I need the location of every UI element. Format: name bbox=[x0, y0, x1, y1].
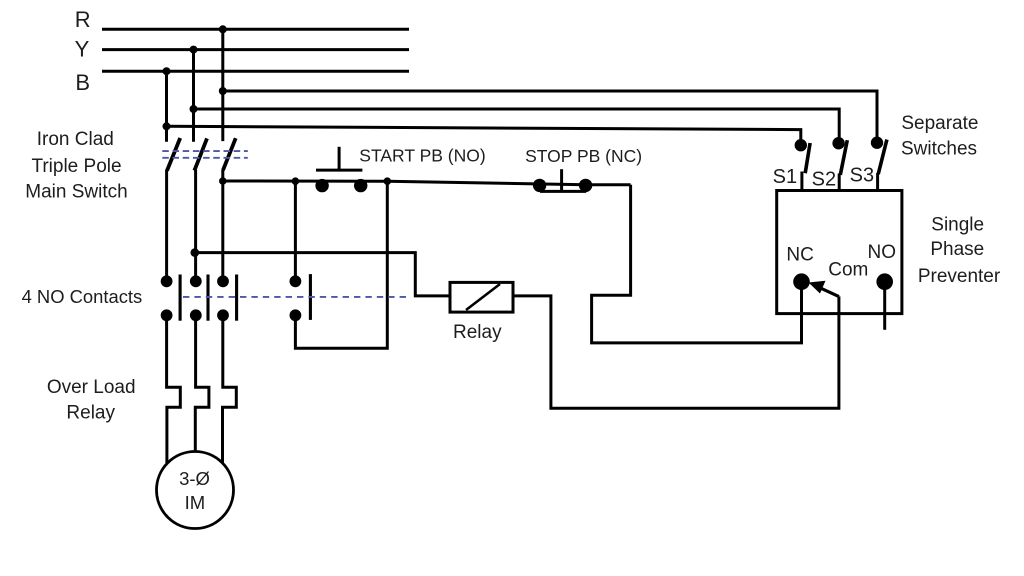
switch S1 blade bbox=[805, 143, 810, 173]
main switch pole B upper bbox=[165, 71, 168, 142]
junction dot control tap bbox=[219, 177, 227, 185]
wire relay coil feed bbox=[195, 253, 450, 296]
switch S2 blade bbox=[840, 140, 847, 175]
junction dot Y branch bbox=[190, 105, 198, 113]
wire contact2 to overload heater 2 bbox=[195, 318, 209, 452]
svg-text:START PB (NO): START PB (NO) bbox=[359, 145, 485, 165]
switch S3 terminal bbox=[871, 137, 883, 149]
preventer NO terminal bbox=[876, 273, 893, 290]
main switch blade Y bbox=[194, 138, 207, 170]
switch S3 blade bbox=[878, 140, 887, 175]
preventer NC terminal bbox=[793, 273, 810, 290]
svg-text:Preventer: Preventer bbox=[918, 266, 1001, 287]
svg-text:4 NO Contacts: 4 NO Contacts bbox=[22, 286, 143, 307]
junction dot R branch bbox=[219, 87, 227, 95]
phase rail R bbox=[102, 28, 409, 31]
start pushbutton actuator bar bbox=[316, 169, 362, 172]
wire relay to preventer Com bbox=[513, 296, 839, 408]
main switch blade B bbox=[167, 138, 180, 171]
start pushbutton stem bbox=[338, 147, 341, 170]
svg-text:Separate: Separate bbox=[901, 113, 978, 134]
main switch pole R lower wire bbox=[221, 170, 224, 277]
contact 3 upper terminal bbox=[217, 275, 229, 287]
contactor NO contact 4 bar bbox=[309, 274, 312, 320]
wire holding contact feed bbox=[294, 181, 297, 277]
stop button contact right bbox=[579, 179, 592, 192]
contactor NO contact 2 bar bbox=[206, 275, 209, 321]
svg-text:Com: Com bbox=[828, 259, 868, 280]
contact 2 lower terminal bbox=[190, 309, 202, 321]
main switch pole B lower wire bbox=[165, 170, 168, 277]
stop pushbutton stem bbox=[560, 169, 563, 191]
svg-text:R: R bbox=[75, 7, 91, 32]
switch S1 stub bbox=[800, 172, 803, 191]
contact 1 lower terminal bbox=[161, 309, 173, 321]
contact 3 lower terminal bbox=[217, 309, 229, 321]
wire contact1 to overload heater 1 bbox=[167, 318, 181, 464]
contact 2 upper terminal bbox=[190, 275, 202, 287]
junction dot holding left bbox=[292, 177, 300, 185]
svg-text:Y: Y bbox=[75, 37, 90, 62]
svg-text:Iron Clad: Iron Clad bbox=[37, 129, 114, 150]
junction dot Y rail bbox=[190, 46, 198, 54]
svg-text:Phase: Phase bbox=[930, 239, 984, 260]
svg-text:NC: NC bbox=[786, 245, 813, 266]
contactor NO contact 1 bar bbox=[179, 275, 182, 321]
phase rail B bbox=[102, 70, 409, 73]
start button contact left bbox=[315, 179, 328, 192]
main switch coupling dashed line upper bbox=[162, 150, 248, 152]
svg-text:S2: S2 bbox=[812, 169, 836, 191]
switch S3 stub bbox=[876, 173, 879, 191]
junction dot B rail bbox=[163, 67, 171, 75]
svg-text:Triple Pole: Triple Pole bbox=[31, 156, 121, 177]
contact 4 lower terminal bbox=[290, 309, 302, 321]
svg-text:Single: Single bbox=[931, 214, 984, 235]
junction dot holding right bbox=[384, 177, 392, 185]
motor 3-phase induction bbox=[157, 452, 234, 529]
relay coil box bbox=[450, 282, 513, 312]
junction dot R rail bbox=[219, 25, 227, 33]
svg-text:IM: IM bbox=[185, 492, 206, 513]
svg-text:STOP PB (NC): STOP PB (NC) bbox=[525, 146, 642, 166]
preventer Com arrowhead bbox=[809, 281, 826, 294]
wire R rail to S3 bbox=[223, 91, 877, 141]
switch S2 terminal bbox=[832, 137, 844, 149]
start button contact right bbox=[354, 179, 367, 192]
junction dot relay feed bbox=[191, 248, 200, 257]
svg-text:Main Switch: Main Switch bbox=[25, 181, 127, 202]
switch S1 terminal bbox=[795, 139, 807, 151]
preventer Com arrow line bbox=[817, 286, 839, 296]
preventer box bbox=[777, 191, 902, 314]
contact 4 upper terminal bbox=[290, 275, 302, 287]
main switch pole Y upper bbox=[192, 50, 195, 142]
wire B rail to S1 bbox=[167, 126, 801, 143]
wire Y rail to S2 bbox=[194, 109, 840, 142]
wire stop to preventer NC bbox=[592, 185, 802, 343]
main switch coupling dashed line lower bbox=[162, 157, 248, 159]
svg-text:3-Ø: 3-Ø bbox=[179, 468, 210, 489]
contactor NO contact 3 bar bbox=[235, 275, 238, 321]
wire holding contact loop bbox=[295, 181, 387, 348]
main switch pole Y lower wire bbox=[194, 170, 197, 277]
svg-text:S1: S1 bbox=[773, 166, 797, 188]
switch S2 stub bbox=[838, 174, 841, 191]
svg-text:S3: S3 bbox=[850, 165, 874, 187]
stop pushbutton actuator bar bbox=[540, 190, 586, 193]
wire start-stop control bbox=[223, 181, 631, 185]
wire contact3 to overload heater 3 bbox=[223, 318, 237, 463]
svg-text:Over Load: Over Load bbox=[47, 377, 136, 398]
main switch pole R upper bbox=[221, 29, 224, 141]
contact 1 upper terminal bbox=[161, 275, 173, 287]
relay coil diagonal bbox=[466, 284, 500, 310]
main switch blade R bbox=[223, 138, 236, 170]
svg-text:Relay: Relay bbox=[453, 322, 502, 343]
junction dot B branch bbox=[163, 122, 171, 130]
preventer NO stub bbox=[883, 282, 886, 330]
stop button contact left bbox=[533, 179, 546, 192]
svg-text:NO: NO bbox=[868, 242, 897, 263]
svg-text:B: B bbox=[75, 70, 90, 95]
svg-text:Switches: Switches bbox=[901, 138, 977, 159]
svg-text:Relay: Relay bbox=[66, 403, 115, 424]
contactor coupling dashed line bbox=[183, 296, 410, 298]
phase rail Y bbox=[102, 48, 409, 51]
